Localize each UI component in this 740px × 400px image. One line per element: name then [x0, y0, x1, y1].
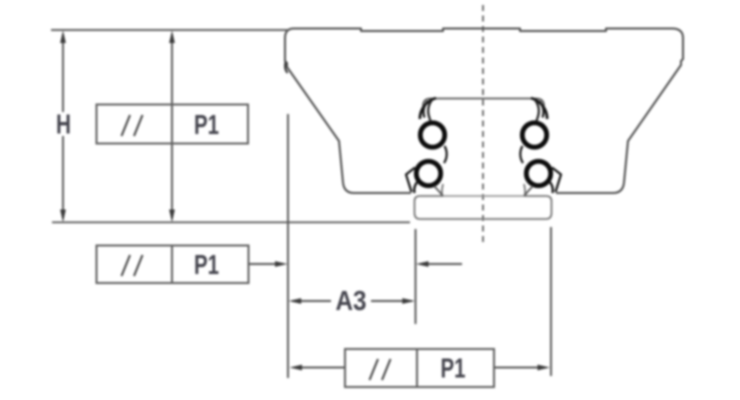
FCF1 parallelism symbol: [122, 115, 143, 136]
block lip lower-left: [406, 168, 415, 193]
svg-text:H: H: [56, 109, 71, 140]
top reference line: [51, 29, 288, 31]
bottom reference line: [52, 221, 410, 223]
dimension H line 2: [171, 34, 173, 219]
FCF3 left leader: [299, 367, 345, 369]
ball B2 upper-right: [522, 123, 546, 147]
groove line lower-right to neck: [525, 186, 534, 196]
dimension A3 line: [292, 300, 331, 302]
FCF2 parallelism symbol: [122, 255, 143, 276]
extension line left (x=288): [287, 114, 289, 378]
feature control frame FCF2 (middle-left): [97, 246, 249, 284]
groove horn upper-right: [531, 98, 547, 119]
ball B4 lower-right: [526, 161, 550, 185]
dimension H line 1: [62, 34, 64, 112]
carriage block outline: [285, 29, 683, 194]
groove ridge mid-left: [444, 146, 447, 163]
FCF3 right leader: [494, 367, 540, 369]
FCF2 leader to extension line: [249, 263, 280, 265]
svg-text:P1: P1: [194, 109, 219, 140]
block side notch left: [285, 62, 287, 73]
groove horn upper-left: [420, 98, 436, 119]
ball B1 upper-left: [420, 123, 444, 147]
svg-text:P1: P1: [194, 249, 219, 280]
feature control frame FCF3 (bottom): [345, 349, 494, 387]
groove ridge mid-right: [520, 146, 523, 163]
centerline (vertical dashed axis): [482, 5, 484, 243]
svg-text:A3: A3: [336, 285, 367, 316]
rail head top: [423, 99, 544, 107]
groove line lower-left to neck: [434, 186, 443, 196]
rail base: [415, 184, 552, 219]
extension line A3 right (x=415.5): [415, 229, 417, 324]
leader arrow at A3 extension: [425, 263, 462, 265]
ball B3 lower-left: [416, 161, 440, 185]
FCF3 parallelism symbol: [370, 359, 391, 380]
feature control frame FCF1 (top): [97, 105, 249, 144]
block lip lower-right: [552, 168, 561, 193]
extension line right (x=551): [550, 227, 552, 376]
rail base top edge: [443, 195, 525, 197]
svg-text:P1: P1: [441, 353, 466, 384]
